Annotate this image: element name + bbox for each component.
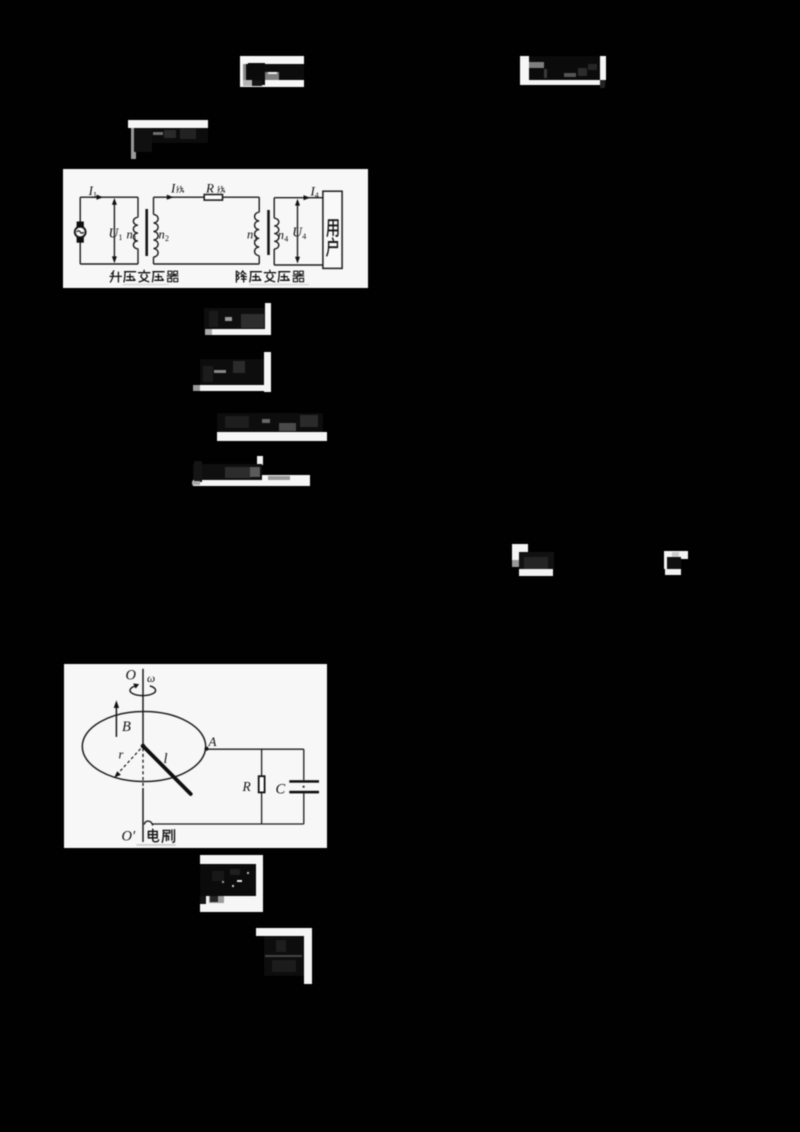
faint underline artifact <box>136 844 175 846</box>
svg-text:4: 4 <box>315 191 319 200</box>
formula patch F3 (Ix = ...) <box>128 120 209 152</box>
bottom wire <box>153 823 304 825</box>
capacitor inner dot <box>303 786 305 788</box>
U4 arrowheads <box>295 198 300 205</box>
rotation axis OO' <box>142 669 144 746</box>
svg-text:1: 1 <box>119 233 123 242</box>
rotating rod generator figure <box>64 664 327 848</box>
radius r dashed arrow <box>117 749 141 775</box>
capacitor C bottom plate <box>289 791 319 794</box>
capacitor C top plate <box>289 780 319 783</box>
svg-text:R: R <box>205 180 214 195</box>
step-up secondary coil n2 <box>154 197 159 264</box>
U1 double arrow line <box>113 200 115 260</box>
primary loop wire <box>80 197 138 264</box>
svg-text:4: 4 <box>302 232 306 241</box>
user box text yong hu <box>327 220 338 236</box>
formula patch F8 (omega) mid-right <box>512 544 554 577</box>
formula patch F10 (E = Blw/2) below generator <box>200 855 264 912</box>
svg-text:4: 4 <box>284 234 288 243</box>
U4 double arrow line <box>297 201 299 261</box>
svg-text:O′: O′ <box>122 829 136 845</box>
svg-text:r: r <box>119 748 124 762</box>
svg-text:n: n <box>247 227 253 241</box>
svg-text:n: n <box>127 227 133 241</box>
label dian shua (brush) <box>148 829 158 842</box>
svg-text:I: I <box>170 180 176 195</box>
center pivot dot <box>141 744 146 749</box>
brush contact arc <box>144 821 153 825</box>
transmission line top wire with resistor gap <box>154 196 260 198</box>
I4 arrowhead <box>304 195 311 200</box>
white figure background <box>64 664 327 848</box>
transmission bottom wire <box>154 263 260 265</box>
I line arrowhead <box>167 194 174 199</box>
R branch wire <box>261 749 263 824</box>
svg-text:B: B <box>122 719 131 735</box>
svg-text:3: 3 <box>254 234 258 243</box>
transformer chain schematic <box>63 169 368 288</box>
svg-text:A: A <box>208 734 217 749</box>
transformer core 1 <box>145 209 148 256</box>
formula patch F6 (delta U = ...) <box>217 407 328 441</box>
contact point A dot <box>205 747 209 751</box>
svg-text:l: l <box>164 751 168 767</box>
svg-text:C: C <box>276 782 286 798</box>
step-down primary coil n3 <box>255 197 260 264</box>
I1 arrowhead <box>97 194 104 199</box>
formula patch F4 (I2 = 40A) <box>204 303 271 335</box>
U1 arrowheads <box>112 198 117 205</box>
formula patch F7 (U = 55 A) <box>192 455 310 486</box>
I1 arrow <box>91 196 101 198</box>
ac source ~ <box>75 226 86 237</box>
top wire A to C branch <box>207 748 304 750</box>
C branch wire <box>303 749 305 824</box>
svg-text:2: 2 <box>165 234 169 243</box>
svg-text:n: n <box>278 227 284 241</box>
line resistor R <box>204 194 222 200</box>
svg-text:R: R <box>242 779 252 794</box>
svg-text:O: O <box>126 667 137 683</box>
disc ellipse <box>82 712 205 782</box>
formula patch F1 (I2 = ...) top-left <box>240 56 304 87</box>
user load box <box>323 191 342 268</box>
user loop wires <box>274 197 323 264</box>
svg-text:ω: ω <box>147 673 155 685</box>
formula patch F2 (U2 = 220V) top-right <box>520 56 607 86</box>
step-down secondary coil n4 <box>274 197 279 264</box>
resistor R box <box>259 776 265 792</box>
subscript xian of I-line <box>177 185 184 192</box>
svg-text:n: n <box>159 227 165 241</box>
ac source caps <box>77 221 84 227</box>
faint artifact dashes under captions <box>123 283 169 285</box>
rotating rod l <box>143 746 191 794</box>
B field arrow <box>115 705 117 737</box>
step-up primary coil n1 <box>133 197 138 264</box>
external circuit wires <box>144 749 304 825</box>
caption: jiang ya bian ya qi (step-down transformer) <box>236 270 246 281</box>
caption: sheng ya bian ya qi (step-up transformer) <box>110 270 121 281</box>
subscript xian of R-line <box>218 185 225 192</box>
svg-text:1: 1 <box>93 190 97 199</box>
formula patch F9 (e) mid-right <box>664 551 688 575</box>
white figure background <box>63 169 368 288</box>
formula patch F5 <box>193 352 271 392</box>
formula patch F11 (I = E/(R+r)) <box>256 928 312 984</box>
ac source tilde <box>77 230 84 233</box>
omega rotation arrow arc <box>130 686 156 696</box>
svg-text:1: 1 <box>133 234 137 243</box>
transformer core 2 <box>267 210 270 255</box>
